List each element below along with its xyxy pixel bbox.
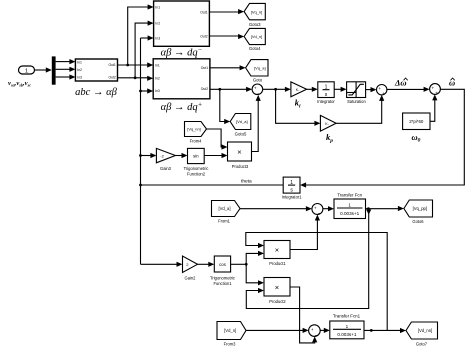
gain Gain2 (triangle) [183, 256, 198, 273]
svg-text:[Vd_a]: [Vd_a] [236, 119, 248, 124]
wire branch down to Goto5 [220, 89, 230, 124]
svg-text:Trigonometric: Trigonometric [184, 166, 209, 171]
gain Gain3 (triangle) [156, 148, 175, 162]
sum junction sum2 [377, 85, 387, 97]
wire integrator to saturation [334, 87, 346, 92]
svg-text:[Vd_a]: [Vd_a] [218, 206, 230, 211]
gain kp (triangle) [320, 115, 336, 131]
svg-text:In2: In2 [77, 68, 82, 72]
svg-text:Gain2: Gain2 [185, 276, 197, 281]
wire sum2 to sum3 [387, 87, 430, 92]
goto tag Goto4 [244, 28, 265, 44]
svg-text:[Vd_n]: [Vd_n] [251, 34, 263, 39]
svg-text:1: 1 [25, 69, 28, 75]
wire cos split down to Product2 in1 [246, 264, 264, 285]
svg-text:Out2: Out2 [108, 76, 115, 80]
wire dq2 Out2 to sum1 [210, 87, 252, 92]
wire saturation to sum2 [366, 87, 377, 92]
wire sum4 to Transfer Fcn [323, 206, 334, 211]
svg-text:2*pi*60: 2*pi*60 [409, 119, 424, 124]
svg-text:Transfer Fcn: Transfer Fcn [337, 193, 362, 198]
svg-text:Goto7: Goto7 [416, 342, 428, 347]
svg-text:Integrator: Integrator [317, 99, 335, 104]
wire mux to abc In1 [56, 59, 76, 64]
svg-text:+: + [435, 90, 438, 95]
product block Product1 [264, 241, 290, 259]
block alphabeta->dq+ (second) [153, 59, 210, 99]
wire feedback A down from Transfer Fcn output [246, 210, 371, 309]
wire mux to abc In3 [56, 74, 76, 79]
svg-text:Function2: Function2 [187, 172, 206, 177]
svg-text:In3: In3 [155, 89, 160, 93]
svg-text:In1: In1 [155, 63, 160, 67]
svg-text:Out2: Out2 [201, 87, 208, 91]
from tag From1 [212, 201, 241, 217]
node branch to Goto5 [218, 88, 221, 91]
svg-text:In3: In3 [77, 76, 82, 80]
svg-text:In2: In2 [155, 22, 160, 26]
wire dq1 Out1 to Goto3 [209, 9, 244, 14]
wire sin to Product3 [204, 153, 227, 158]
saturation block [347, 82, 366, 98]
svg-text:[Vq_pp]: [Vq_pp] [413, 206, 427, 211]
from tag From4 [185, 122, 207, 137]
wire kp to sum2 (up) [336, 95, 384, 123]
svg-text:Product1: Product1 [269, 261, 286, 266]
wire sum5 to Transfer Fcn1 [320, 328, 330, 333]
sum junction sum5 [309, 325, 321, 339]
svg-text:αβ → dq+: αβ → dq+ [161, 101, 203, 114]
wire cos to split [231, 263, 247, 265]
svg-text:[Vq_nn]: [Vq_nn] [187, 127, 200, 132]
svg-text:Gain3: Gain3 [160, 166, 172, 171]
wire dq2 Out1 to Goto [210, 65, 246, 70]
wire branch up to dq1 In1 [128, 4, 154, 65]
svg-text:[Vq_a]: [Vq_a] [254, 66, 266, 71]
svg-text:Function1: Function1 [214, 281, 233, 286]
wire From1 to sum4 [240, 206, 312, 211]
svg-text:Integrator1: Integrator1 [282, 194, 303, 199]
wire From3 to sum5 [246, 328, 309, 333]
svg-text:In1: In1 [77, 60, 82, 64]
node on Transfer Fcn1 output [370, 329, 373, 332]
trig block sin [188, 148, 205, 163]
svg-text:Goto: Goto [253, 77, 263, 82]
wire theta vertical trunk [140, 38, 142, 264]
block abc->alphabeta [75, 59, 117, 81]
node cos split [245, 263, 248, 266]
svg-text:+: + [382, 91, 385, 96]
node theta trunk gain3 [139, 154, 142, 157]
wire abc Out1 to dq2 In1 [118, 62, 154, 67]
wire theta to Gain3 [141, 153, 157, 158]
svg-text:1: 1 [346, 324, 349, 329]
wire Product3 to sum1 (up) [252, 95, 261, 152]
svg-text:Out2: Out2 [200, 34, 207, 38]
svg-text:×: × [237, 148, 241, 157]
wire abc Out2 to dq2 In2 [118, 76, 154, 81]
wire mux to abc In2 [56, 67, 76, 72]
goto tag Goto6 [404, 200, 433, 217]
svg-text:Goto6: Goto6 [412, 219, 424, 224]
svg-text:+: + [254, 86, 257, 91]
wire branch down to kp [276, 89, 321, 126]
svg-text:+: + [378, 86, 381, 91]
wire feedback B from Transfer Fcn1 output up to Product1 in1 [246, 233, 387, 331]
wire sum3 to integrator1 (right edge down) [300, 89, 464, 187]
node on Transfer Fcn output [367, 207, 370, 210]
integrator block 1/s [318, 82, 334, 98]
wire theta to dq1 In3 [141, 35, 154, 40]
svg-text:0.003s+1: 0.003s+1 [340, 211, 359, 216]
input port 1 (oval) [19, 66, 35, 75]
sum junction sum1 [252, 84, 263, 97]
svg-text:In3: In3 [155, 36, 160, 40]
product block Product2 [264, 278, 290, 297]
svg-text:From1: From1 [218, 218, 231, 223]
svg-text:×: × [275, 246, 279, 255]
gain ki (triangle) [291, 82, 307, 97]
wire cos split up to Product1 in2 [246, 251, 264, 265]
svg-text:sin: sin [193, 154, 199, 159]
svg-text:+: + [431, 86, 434, 91]
product block Product3 [228, 142, 252, 161]
svg-text:Out1: Out1 [200, 11, 207, 15]
block Transfer Fcn [334, 199, 366, 219]
svg-text:Transfer Fcn1: Transfer Fcn1 [333, 314, 361, 319]
svg-text:−: − [315, 333, 318, 339]
wire ki to integrator [307, 87, 318, 92]
node theta trunk dq2 [139, 90, 142, 93]
svg-text:Goto3: Goto3 [249, 22, 261, 27]
svg-text:[Vd_n]: [Vd_n] [224, 328, 236, 333]
svg-text:+: + [314, 205, 317, 210]
wire Product1 to sum4 (up) [290, 215, 320, 250]
from tag From3 [217, 322, 246, 340]
wire dq1 Out2 to Goto4 [209, 34, 244, 39]
svg-text:Trigonometric: Trigonometric [210, 276, 235, 281]
node theta trunk join [139, 184, 142, 187]
wire From4 to Product3 in1 [207, 129, 228, 150]
wire Gain2 to cos [198, 262, 215, 267]
wire branch up to dq1 In2 [135, 21, 154, 78]
svg-text:Saturation: Saturation [347, 99, 366, 104]
wire sum1 to ki [263, 87, 291, 92]
wire constant to sum3 (up) [430, 94, 437, 121]
svg-text:Out1: Out1 [108, 63, 115, 67]
goto tag Goto [246, 60, 268, 76]
wire Product2 to sum5 (down and up) [290, 287, 317, 343]
mux bar [52, 56, 56, 84]
svg-text:From3: From3 [224, 342, 237, 347]
svg-text:Goto5: Goto5 [235, 131, 247, 136]
svg-text:Product2: Product2 [269, 299, 286, 304]
svg-text:Product3: Product3 [232, 164, 249, 169]
wire integrator1 output (theta) to trunk [141, 184, 284, 186]
goto tag Goto7 [406, 322, 438, 339]
wire Gain3 to sin [175, 153, 187, 158]
wire Transfer Fcn1 to Goto7 [364, 328, 406, 333]
svg-text:[Vd_nn]: [Vd_nn] [418, 328, 432, 333]
svg-text:From4: From4 [190, 138, 203, 143]
node on Out1 wire [126, 64, 129, 67]
svg-text:cos: cos [219, 262, 227, 267]
wire theta to Gain2 [141, 262, 183, 267]
sum junction sum4 [312, 204, 323, 218]
svg-text:In2: In2 [155, 77, 160, 81]
svg-text:Goto4: Goto4 [249, 46, 261, 51]
svg-text:×: × [275, 283, 279, 292]
trig block cos [214, 256, 230, 272]
node branch to kp [274, 88, 277, 91]
block alphabeta->dq- (top) [154, 1, 210, 46]
svg-text:[Vq_n]: [Vq_n] [251, 9, 263, 14]
goto tag Goto5 [230, 114, 251, 130]
svg-text:abc → αβ: abc → αβ [75, 87, 117, 98]
integrator1 block 1/s (flipped) [283, 177, 300, 193]
svg-text:Out1: Out1 [201, 66, 208, 70]
svg-text:In1: In1 [155, 5, 160, 9]
block Transfer Fcn1 [330, 321, 364, 339]
constant block 2*pi*60 [403, 113, 430, 130]
node on Out2 wire [134, 76, 137, 79]
svg-text:+: + [311, 327, 314, 332]
svg-text:αβ → dq−: αβ → dq− [161, 46, 203, 59]
wire Transfer Fcn to Goto6 [366, 206, 404, 211]
wire oval to mux [35, 67, 52, 72]
svg-text:0.003s+1: 0.003s+1 [337, 332, 356, 337]
wire theta to dq2 In3 [141, 88, 154, 93]
svg-text:theta: theta [241, 178, 252, 184]
sum junction sum3 [430, 84, 441, 96]
svg-text:1: 1 [348, 202, 351, 207]
goto tag Goto3 [244, 3, 265, 19]
